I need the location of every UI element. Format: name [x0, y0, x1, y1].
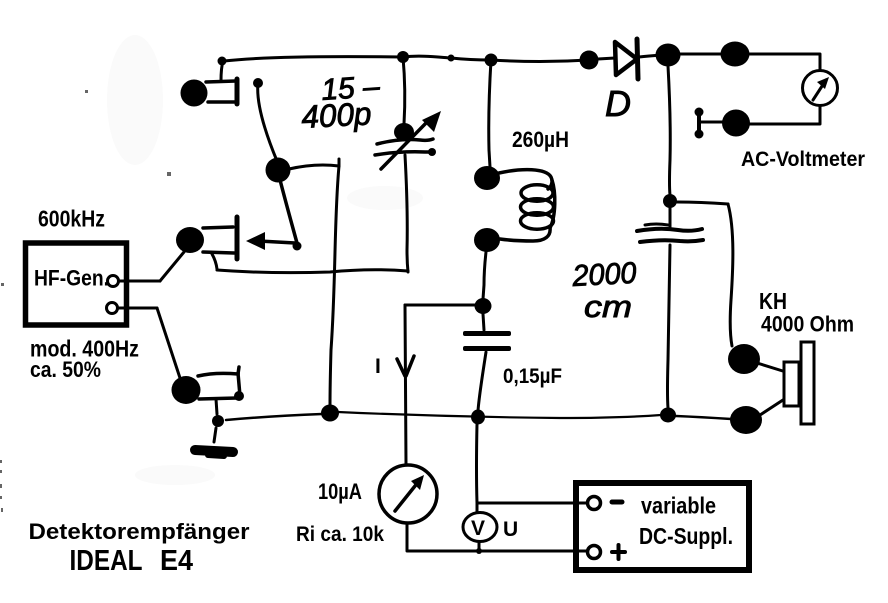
svg-text:ca. 50%: ca. 50% [30, 357, 101, 382]
svg-text:260µH: 260µH [512, 127, 569, 152]
svg-text:600kHz: 600kHz [38, 206, 105, 232]
svg-text:DC-Suppl.: DC-Suppl. [639, 523, 733, 549]
svg-text:Detektorempfänger: Detektorempfänger [29, 519, 250, 544]
svg-text:I: I [375, 355, 381, 378]
svg-text:10µA: 10µA [318, 479, 362, 504]
svg-text:AC-Voltmeter: AC-Voltmeter [741, 148, 865, 171]
svg-text:variable: variable [641, 493, 716, 519]
svg-text:Ri ca. 10k: Ri ca. 10k [296, 523, 384, 546]
svg-text:4000 Ohm: 4000 Ohm [761, 312, 854, 337]
svg-text:U: U [503, 518, 518, 541]
svg-text:IDEAL: IDEAL [70, 545, 143, 577]
svg-text:400p: 400p [300, 95, 372, 135]
svg-text:KH: KH [759, 288, 787, 314]
svg-text:D: D [605, 83, 631, 124]
svg-text:cm: cm [584, 289, 632, 324]
svg-text:V: V [471, 517, 485, 540]
svg-text:HF-Gen.: HF-Gen. [34, 266, 109, 291]
svg-text:2000: 2000 [571, 257, 638, 293]
svg-text:E4: E4 [160, 545, 193, 577]
svg-text:0,15µF: 0,15µF [503, 365, 562, 388]
